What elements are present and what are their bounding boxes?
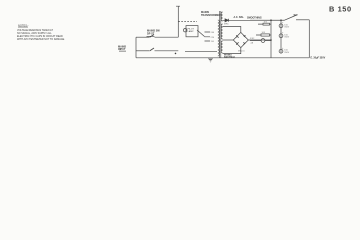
pilot lamp [184, 29, 187, 32]
wire bridge output [248, 39, 271, 41]
svg-text:350V: 350V [284, 37, 289, 39]
wire secondary to bridge top [223, 27, 241, 33]
svg-text:B 150: B 150 [329, 5, 352, 14]
wire secondary to bridge left [223, 39, 234, 41]
label top right of transformer [234, 16, 262, 20]
fuse FS2 [261, 39, 265, 43]
wire mains neutral [136, 50, 149, 52]
label mains transformer [201, 11, 221, 17]
wire primary bottom [185, 50, 217, 52]
svg-text:E. 30µF 350V: E. 30µF 350V [311, 57, 326, 60]
pilot lamp box [186, 26, 198, 37]
dashed switch link [178, 21, 197, 23]
svg-text:SMOOTHING: SMOOTHING [247, 17, 262, 20]
wire secondary to bridge bottom [223, 48, 241, 54]
svg-text:350V: 350V [284, 27, 289, 29]
selector taps [205, 32, 211, 41]
svg-text:10K: 10K [262, 32, 266, 34]
label mains neutral [224, 54, 236, 60]
capacitor C smoothing 2 [279, 34, 283, 38]
wire mains down [135, 37, 137, 58]
svg-text:INPUT: INPUT [118, 48, 126, 51]
capacitor C smoothing 1 [279, 24, 283, 28]
bridge rectifier MR2-5 [233, 32, 248, 47]
voltage selector arm [197, 30, 205, 37]
svg-text:SW: SW [294, 14, 299, 17]
secondary HT wire with diode D1 [223, 19, 285, 21]
svg-text:WITH AVO TESTMETER NOT TO DAMA: WITH AVO TESTMETER NOT TO DAMAGE. [17, 38, 65, 41]
svg-text:A.C. BAL: A.C. BAL [234, 16, 245, 19]
diode D1 [225, 19, 229, 22]
wire cap column [270, 20, 272, 58]
capacitor C smoothing 3 [279, 49, 283, 53]
label mains switch [147, 30, 161, 37]
psu rail top [250, 19, 285, 21]
label E 30uF [311, 57, 326, 60]
svg-text:LAMP: LAMP [188, 30, 194, 33]
svg-text:NEUTRAL: NEUTRAL [224, 56, 236, 59]
label mains switch left [118, 46, 126, 52]
svg-text:MR2-5: MR2-5 [238, 51, 245, 53]
transformer T1 [218, 11, 223, 58]
junction dots psu [175, 19, 282, 54]
svg-text:TRANSFORMER: TRANSFORMER [201, 14, 221, 17]
svg-text:350V: 350V [284, 52, 289, 54]
notes text block top-left [17, 24, 65, 42]
wire fuse stub up [176, 6, 180, 37]
resistor R psu 1 [263, 23, 270, 25]
svg-text:MR1: MR1 [224, 24, 229, 26]
wire psu right drop [308, 20, 310, 58]
resistor R psu 2 [261, 34, 270, 36]
wire mains live [136, 36, 149, 38]
svg-text:DP ST: DP ST [147, 32, 155, 35]
ground at mains [208, 58, 213, 62]
switch SW on psu rail [285, 16, 296, 21]
